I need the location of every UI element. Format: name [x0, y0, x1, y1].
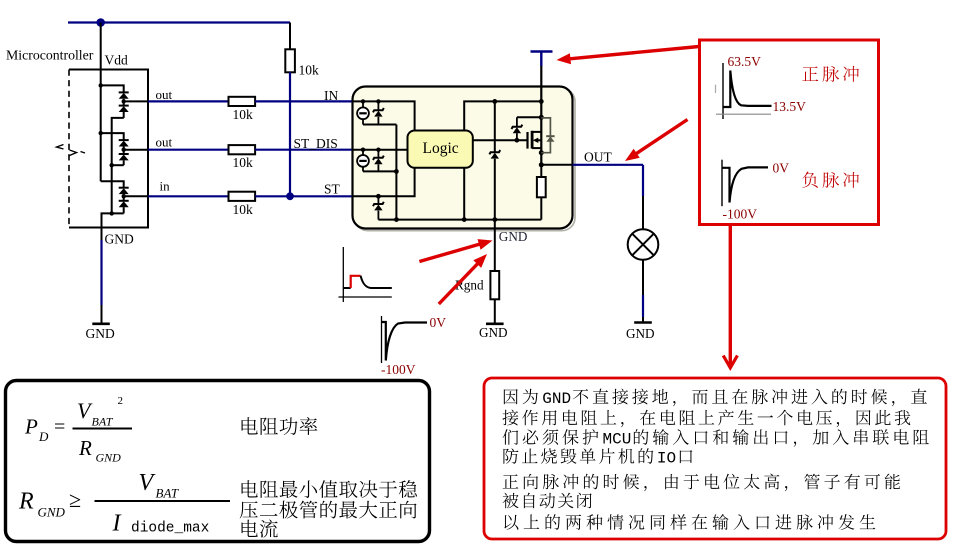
- IC bottom rail: [378, 219, 541, 221]
- svg-text:10k: 10k: [233, 155, 254, 170]
- wire ST_DIS internal: [353, 149, 408, 151]
- svg-text:GND: GND: [96, 451, 122, 465]
- text line6: [503, 493, 519, 509]
- resistor R3 10k: [229, 192, 256, 201]
- wire OUT external: [573, 164, 644, 166]
- wire ST internal: [353, 168, 415, 197]
- svg-text:ST_DIS: ST_DIS: [294, 136, 338, 151]
- formula box: [6, 381, 430, 542]
- wire MCU GND pin: [101, 228, 103, 241]
- waveform W1 axis: [342, 247, 344, 302]
- svg-text:V: V: [139, 470, 156, 496]
- svg-text:GND: GND: [86, 326, 115, 341]
- node vdd tap1: [99, 83, 103, 87]
- wire MCU Vdd internal rail: [100, 70, 102, 182]
- svg-text:0V: 0V: [430, 315, 447, 330]
- svg-text:out: out: [156, 135, 173, 150]
- red arrow A2 to GND wire: [439, 263, 479, 304]
- wire pair3 anode rail to GND: [102, 213, 124, 227]
- svg-text:BAT: BAT: [92, 415, 114, 429]
- resistor Rgnd: [490, 271, 499, 299]
- wire diode feed 1: [101, 85, 124, 92]
- red box pulses: [700, 40, 879, 225]
- red text box: [484, 378, 946, 539]
- wire diode feed 3: [101, 181, 124, 187]
- svg-text:I: I: [112, 511, 122, 537]
- protection diode pair at pin y=150: [119, 139, 129, 141]
- waveform W1 trace: [343, 287, 350, 289]
- ground GND3: [634, 321, 652, 324]
- svg-text:10k: 10k: [233, 107, 254, 122]
- svg-text:≥: ≥: [69, 487, 81, 512]
- wire clamp to drain: [517, 116, 541, 118]
- wire R4 to ST node: [289, 72, 291, 196]
- node gate-zener: [515, 138, 520, 143]
- text line5: [503, 474, 519, 488]
- wire gate line: [473, 139, 528, 141]
- wire cell1 bottom rail: [363, 124, 396, 126]
- MCU box: [69, 70, 148, 228]
- svg-text:-100V: -100V: [723, 207, 758, 222]
- svg-text:=: =: [54, 416, 65, 438]
- svg-text:R: R: [18, 489, 34, 515]
- wire R2 to IC: [255, 149, 352, 151]
- wire OUT inside: [541, 164, 572, 166]
- waveform W2 axis: [381, 316, 383, 363]
- red arrow A1 to GND pin: [419, 244, 481, 262]
- waveform P1 axis: [715, 85, 717, 93]
- resistor R1 10k: [229, 97, 256, 106]
- node Vdd rail junction: [96, 18, 105, 27]
- svg-text:Logic: Logic: [423, 140, 459, 157]
- wire logic bottom pin: [463, 168, 465, 220]
- svg-text:GND: GND: [542, 390, 571, 408]
- svg-text:-100V: -100V: [381, 362, 416, 377]
- zener D5 gate clamp: [516, 133, 518, 140]
- wire pin stub: [124, 100, 148, 102]
- red pointer line to text box: [729, 226, 732, 367]
- wire supply vertical through mosfet: [540, 87, 542, 165]
- svg-text:0V: 0V: [773, 161, 790, 176]
- lamp L1: [628, 229, 659, 260]
- label min resistance text: [242, 480, 258, 497]
- wire logic top pin: [464, 101, 541, 130]
- ground GND2: [486, 322, 504, 325]
- svg-text:13.5V: 13.5V: [773, 99, 807, 114]
- label resistor power: [242, 417, 258, 434]
- wire IC GND pin: [494, 229, 496, 272]
- svg-text:10k: 10k: [233, 202, 254, 217]
- svg-text:P: P: [24, 415, 38, 439]
- wire MCU to R3: [148, 195, 229, 197]
- IC body: [353, 87, 573, 229]
- resistor R5 internal: [540, 165, 542, 177]
- red arrow A3 to supply: [568, 47, 699, 59]
- svg-text:GND: GND: [38, 505, 66, 520]
- text line2: [502, 410, 518, 426]
- current source I1: [361, 99, 365, 103]
- wire diode feed 2: [101, 133, 124, 140]
- wire pin stub: [124, 149, 148, 151]
- wire pin stub: [124, 195, 148, 197]
- svg-text:OUT: OUT: [584, 150, 612, 165]
- wire R3 to IC: [255, 195, 352, 197]
- svg-text:10k: 10k: [299, 63, 320, 78]
- svg-text:2: 2: [118, 395, 124, 407]
- label positive pulse: [802, 66, 818, 81]
- protection diode pair at pin y=196: [119, 187, 129, 189]
- svg-text:MCU: MCU: [603, 431, 632, 449]
- node chain-cell2: [394, 169, 399, 174]
- wire MCU to R1: [148, 100, 229, 102]
- text line1: [504, 389, 518, 404]
- IC body shadow: [355, 89, 575, 231]
- svg-text:GND: GND: [105, 232, 134, 247]
- waveform P2 axis: [721, 160, 723, 207]
- svg-text:IN: IN: [324, 88, 338, 103]
- text line3: [503, 429, 519, 445]
- wire diode chain step1: [112, 118, 124, 165]
- protection diode pair at pin y=101: [119, 91, 129, 93]
- text line7: [504, 515, 518, 530]
- wire cell2 bottom rail: [363, 170, 396, 172]
- wire lamp to gnd: [642, 260, 644, 295]
- svg-text:GND: GND: [479, 325, 508, 340]
- text line4: [503, 448, 518, 464]
- svg-text:R: R: [78, 436, 92, 460]
- diode D6 body: [541, 118, 550, 153]
- node top rail gnd-branch: [492, 99, 497, 104]
- node OUT junction: [539, 162, 544, 167]
- wire IN internal: [353, 101, 415, 130]
- resistor R4 10k pull-up: [285, 49, 295, 72]
- wire pair2 anode rail: [112, 164, 124, 166]
- wire supply into IC: [540, 66, 542, 87]
- wire top rail to R4: [289, 23, 291, 50]
- svg-text:diode_max: diode_max: [131, 521, 210, 537]
- svg-text:63.5V: 63.5V: [728, 54, 762, 69]
- svg-text:ST: ST: [324, 182, 341, 197]
- zener D4: [489, 150, 500, 154]
- zener D1: [376, 99, 380, 103]
- svg-text:Microcontroller: Microcontroller: [6, 48, 94, 63]
- current source I2: [361, 148, 365, 152]
- ground GND1: [92, 322, 110, 325]
- svg-text:GND: GND: [626, 326, 655, 341]
- break squiggle: [57, 145, 64, 150]
- transistor Q1 mosfet: [531, 131, 534, 149]
- node top rail supply: [539, 99, 544, 104]
- logic box U2: [408, 131, 473, 168]
- node chain j2: [110, 211, 114, 215]
- label negative pulse: [802, 172, 818, 188]
- wire MCU to R2: [148, 149, 229, 151]
- zener D2: [376, 148, 380, 152]
- waveform P2 trace: [722, 167, 768, 202]
- waveform W2 trace: [382, 322, 428, 361]
- node vdd tap2: [99, 131, 103, 135]
- svg-text:Vdd: Vdd: [105, 53, 128, 68]
- red arrow A4 to OUT: [635, 120, 688, 155]
- wire R1 to IC: [255, 100, 352, 102]
- node chain j1: [110, 163, 114, 167]
- svg-text:in: in: [160, 179, 171, 194]
- wire chain vertical: [395, 125, 397, 220]
- svg-text:GND: GND: [499, 229, 528, 244]
- resistor R2 10k: [229, 145, 256, 154]
- node ST pullup junction: [286, 192, 294, 200]
- zener D3: [376, 194, 381, 199]
- wire diode chain step2: [111, 165, 113, 213]
- waveform P1 trace: [723, 71, 772, 108]
- wire Vdd top rail: [68, 21, 290, 23]
- wire internal gnd branch: [494, 101, 496, 152]
- supply terminal T-bar: [531, 50, 553, 53]
- wire Vdd drop to MCU: [100, 23, 102, 70]
- svg-text:IO: IO: [657, 450, 676, 468]
- svg-text:D: D: [38, 429, 49, 444]
- svg-text:out: out: [156, 87, 173, 102]
- svg-text:BAT: BAT: [156, 486, 179, 501]
